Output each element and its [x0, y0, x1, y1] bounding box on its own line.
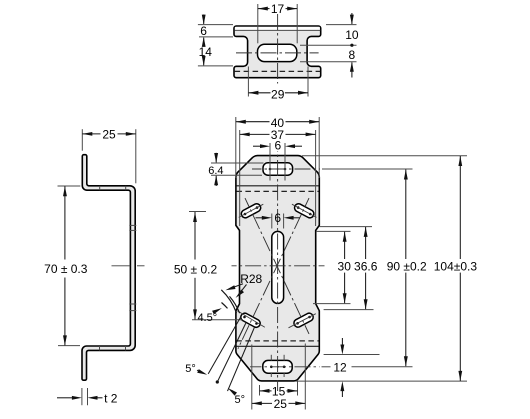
bend tangent line	[235, 29, 321, 31]
svg-text:t 2: t 2	[104, 392, 118, 406]
dim 104±0.3	[459, 156, 461, 259]
dim 12	[324, 354, 380, 356]
bottom mounting slot	[263, 360, 292, 373]
svg-text:50 ± 0.2: 50 ± 0.2	[174, 262, 218, 276]
bottom fold hidden line (dashed)	[236, 340, 318, 342]
horizontal center line	[236, 52, 319, 54]
vertical center line	[277, 14, 279, 84]
slot swing band outer arc (4.5deg)	[222, 303, 228, 309]
step projection ticks on face	[129, 224, 136, 226]
svg-text:104±0.3: 104±0.3	[434, 260, 478, 274]
angled slot lower-left	[241, 313, 260, 327]
horizontal center line front view	[232, 265, 325, 267]
angled slot lower-right	[294, 313, 313, 327]
dim 70±0.3 (side view left)	[58, 185, 81, 187]
5 deg swing lines (lower-left slot)	[208, 317, 241, 374]
slot swing band inner arc	[230, 296, 240, 313]
svg-text:29: 29	[271, 87, 285, 101]
top fold hidden line (dashed)	[236, 190, 318, 192]
diagonal center line UR-LL extended	[238, 198, 309, 349]
svg-text:10: 10	[345, 28, 359, 42]
side view: Z-bent strip profile	[82, 155, 135, 381]
svg-text:8: 8	[349, 48, 356, 62]
central slot (17x8)	[258, 44, 297, 61]
dim 25 (side view top)	[81, 129, 83, 151]
svg-text:36.6: 36.6	[354, 260, 378, 274]
dim 36.6	[365, 227, 367, 259]
svg-text:25: 25	[274, 397, 288, 411]
axis line lower-left slot	[237, 311, 264, 328]
hole tick lines bottom slot	[270, 355, 272, 361]
dim 6 (left of top view)	[198, 24, 233, 26]
top face strip (white)	[235, 27, 320, 31]
side view center line	[112, 265, 131, 267]
dim 6 (central oval width)	[271, 214, 273, 229]
axis line upper-left slot	[239, 204, 264, 217]
svg-text:70 ± 0.3: 70 ± 0.3	[44, 262, 88, 276]
hidden edge (dashed) in bottom strip	[235, 70, 321, 72]
central oval slot	[272, 231, 284, 303]
dim 10 (right of top view)	[326, 24, 357, 26]
axis line upper-right slot	[292, 204, 317, 217]
svg-text:R28: R28	[240, 272, 262, 286]
dim 15	[259, 385, 261, 396]
svg-text:6: 6	[200, 24, 207, 38]
svg-text:25: 25	[102, 128, 116, 142]
dim 37	[239, 130, 241, 226]
top slot center line	[252, 168, 320, 170]
dim 40	[235, 117, 237, 178]
svg-text:5°: 5°	[235, 394, 246, 406]
svg-text:17: 17	[271, 2, 285, 16]
top view: H-section of bracket seen from above	[234, 26, 321, 78]
svg-text:14: 14	[199, 45, 213, 59]
svg-text:6: 6	[274, 139, 281, 153]
angled slot upper-right	[295, 204, 314, 218]
dim 30	[344, 232, 346, 259]
top mounting slot	[263, 163, 293, 175]
svg-text:12: 12	[333, 360, 347, 374]
dim 25 (front bottom)	[251, 345, 253, 410]
svg-text:5°: 5°	[185, 363, 196, 375]
axis line lower-right slot	[289, 314, 316, 328]
dim 90±0.2	[405, 170, 407, 260]
dim 29 (bottom of top view)	[247, 67, 249, 97]
front view: bracket face plate	[236, 156, 319, 381]
top slot hole centers	[269, 168, 272, 171]
dim 6 (top slot holes)	[253, 145, 260, 147]
svg-text:6.4: 6.4	[208, 165, 223, 177]
R28 pitch arc	[221, 290, 236, 313]
vertical center line front view	[277, 151, 279, 391]
ext lines right side	[316, 230, 351, 232]
dim 8 (right of top view)	[300, 61, 357, 63]
top fold line (solid)	[236, 185, 318, 187]
dim t 2 (side view bottom)	[81, 388, 83, 405]
svg-text:90 ±0.2: 90 ±0.2	[387, 260, 427, 274]
svg-text:30: 30	[338, 260, 352, 274]
bottom fold line (solid)	[236, 345, 318, 347]
bend tangent ticks on webs	[99, 186, 101, 190]
svg-text:6: 6	[274, 211, 281, 225]
dim 17 (top)	[257, 4, 259, 43]
bottom slot center line	[250, 366, 320, 368]
hole tick lines through top slot	[269, 143, 271, 181]
dim 50±0.2	[189, 211, 206, 213]
dim 14 (left of top view)	[198, 65, 233, 67]
dim 6.4 (top slot width)	[211, 162, 264, 164]
diagonal center line UL-LR	[245, 198, 309, 334]
angled slot upper-left	[241, 204, 260, 218]
bottom slot hole centers	[270, 366, 273, 369]
